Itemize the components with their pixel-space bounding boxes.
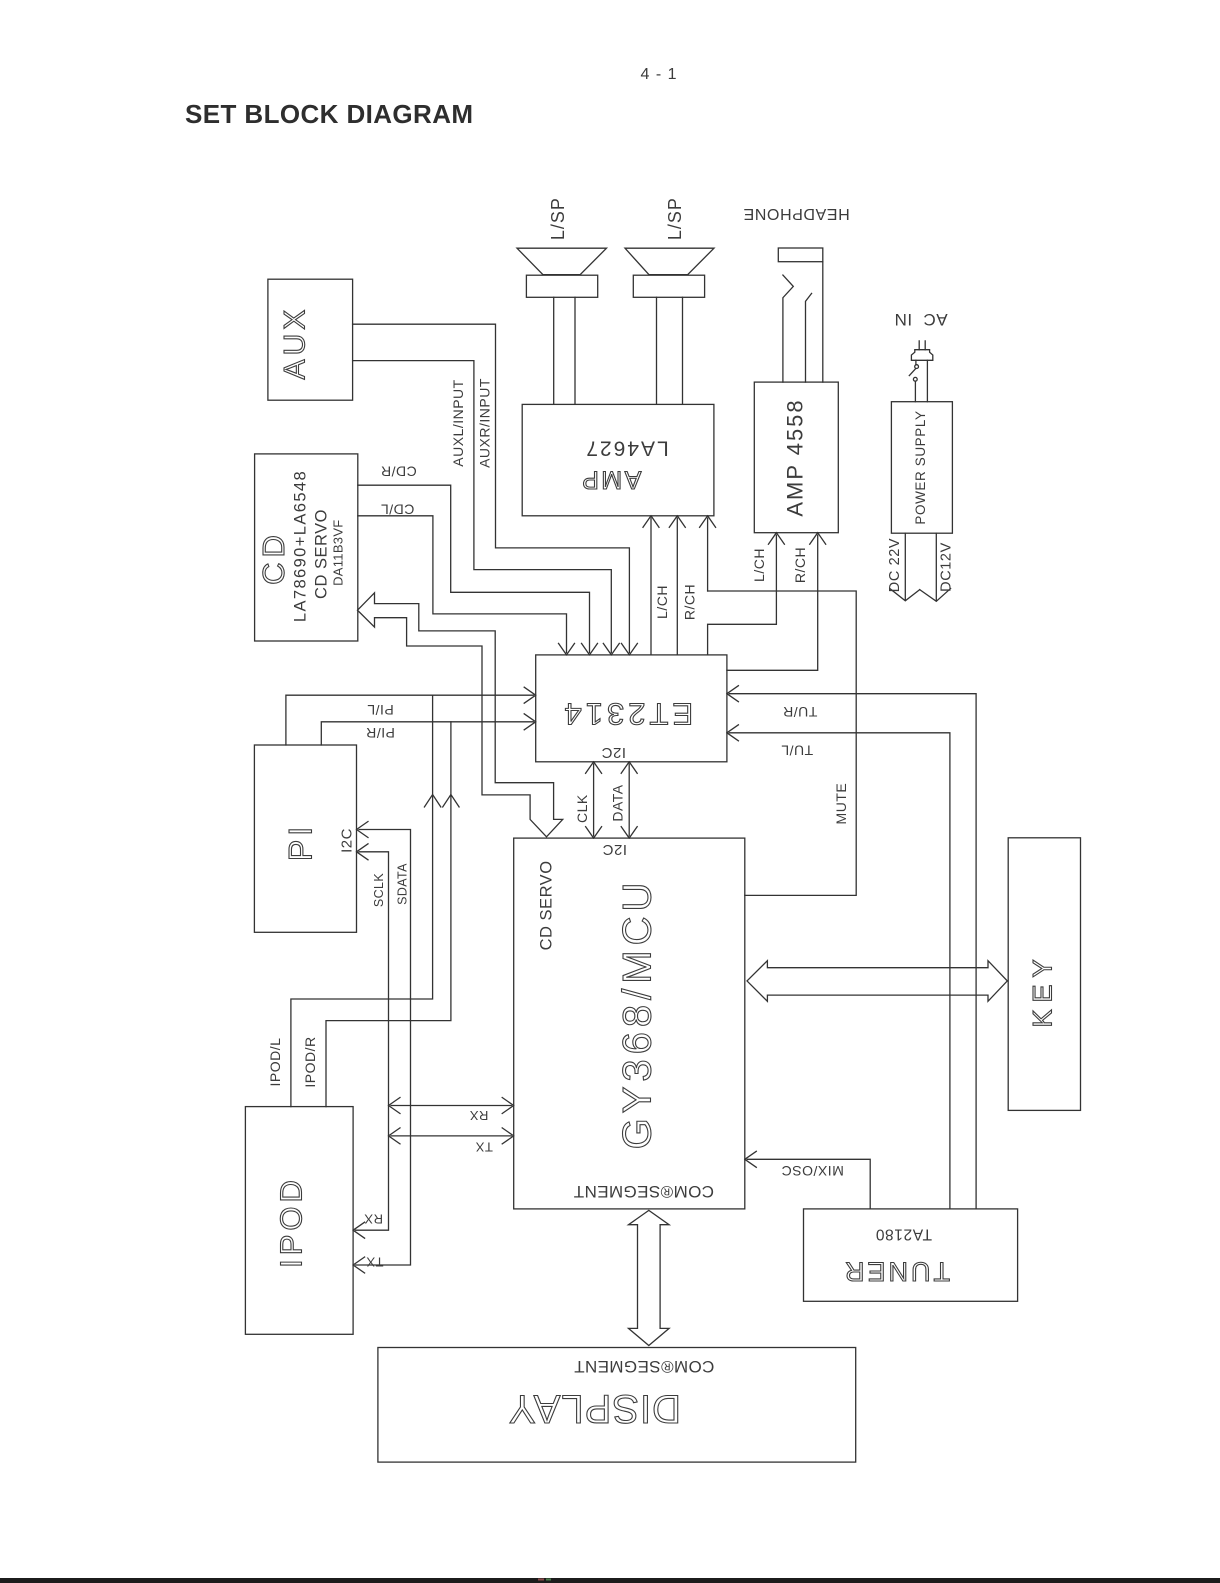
label MIX/OSC bbox=[781, 1163, 844, 1179]
svg-text:LA78690+LA6548: LA78690+LA6548 bbox=[291, 470, 309, 622]
svg-text:AMP 4558: AMP 4558 bbox=[782, 398, 807, 516]
svg-text:CD SERVO: CD SERVO bbox=[537, 860, 555, 950]
block AMP LA4627 bbox=[522, 404, 714, 515]
label L/CH (to LA4627) bbox=[654, 585, 670, 619]
svg-text:PI: PI bbox=[282, 823, 318, 861]
svg-text:SDATA: SDATA bbox=[395, 863, 409, 905]
svg-text:L/CH: L/CH bbox=[751, 548, 767, 582]
svg-text:SCLK: SCLK bbox=[372, 873, 386, 908]
svg-text:RX: RX bbox=[469, 1108, 488, 1123]
svg-text:R/CH: R/CH bbox=[792, 547, 808, 583]
label AUXL/INPUT bbox=[450, 379, 466, 466]
block ET2314 bbox=[536, 655, 727, 762]
label IPOD/L bbox=[267, 1038, 283, 1087]
wire CD/L to ET2314 bbox=[358, 516, 575, 655]
label L/SP (right speaker) bbox=[665, 197, 685, 240]
wire IPOD/L (joins PI/L line) bbox=[291, 695, 433, 1106]
label IPOD/R bbox=[302, 1036, 318, 1087]
break mark on IPOD/R bbox=[443, 795, 459, 808]
wire RX (to GY368, double arrow) bbox=[389, 1098, 514, 1114]
svg-text:TU/L: TU/L bbox=[781, 742, 813, 758]
svg-text:IPOD/L: IPOD/L bbox=[267, 1038, 283, 1087]
svg-text:RX: RX bbox=[364, 1212, 383, 1227]
block IPOD bbox=[245, 1107, 353, 1335]
block CD (LA78690+LA6548 CD SERVO DA11B3VF) bbox=[255, 454, 358, 641]
block PI bbox=[254, 745, 356, 932]
label SCLK bbox=[372, 873, 386, 908]
svg-text:I2C: I2C bbox=[601, 744, 626, 761]
break mark on IPOD/L bbox=[424, 795, 440, 808]
label TX (at GY368) bbox=[475, 1140, 493, 1155]
svg-text:IPOD/R: IPOD/R bbox=[302, 1036, 318, 1087]
label MUTE bbox=[833, 783, 849, 825]
svg-text:DA11B3VF: DA11B3VF bbox=[330, 519, 345, 585]
wire SCLK (PI I2C lower, shared with IPOD RX) bbox=[353, 844, 388, 1238]
DC 22V hollow arrow bbox=[890, 533, 920, 601]
wire DATA (ET2314 to GY368, double arrow) bbox=[621, 762, 637, 838]
block GY368/MCU bbox=[514, 838, 745, 1209]
block DISPLAY bbox=[378, 1348, 856, 1463]
page number bbox=[640, 66, 677, 83]
speaker L (left) bbox=[517, 248, 607, 404]
label R/CH (to LA4627) bbox=[682, 584, 698, 620]
svg-text:GY368/MCU: GY368/MCU bbox=[616, 878, 660, 1150]
wire R/CH (ET2314 to AMP 4558) bbox=[727, 533, 826, 671]
wire TU/R (TUNER to ET2314) bbox=[727, 686, 976, 1209]
hollow bent arrow CD SERVO (CD box to GY368) bbox=[358, 593, 563, 837]
svg-text:HEADPHONE: HEADPHONE bbox=[743, 205, 850, 222]
wire TU/L (TUNER to ET2314) bbox=[727, 725, 950, 1209]
wire IPOD/R (joins PI/R line) bbox=[326, 722, 451, 1107]
label L/CH (to AMP 4558) bbox=[751, 548, 767, 582]
svg-text:CD/R: CD/R bbox=[380, 463, 416, 479]
svg-text:IPOD: IPOD bbox=[274, 1176, 309, 1268]
wire AUXR/INPUT (AUX upper output to ET2314) bbox=[353, 324, 638, 655]
svg-text:PI/R: PI/R bbox=[366, 725, 395, 741]
block AUX bbox=[268, 279, 353, 400]
label TX (at IPOD) bbox=[366, 1254, 384, 1269]
svg-text:TX: TX bbox=[475, 1140, 493, 1155]
label DC12V bbox=[939, 542, 955, 592]
svg-text:COM®SEGMENT: COM®SEGMENT bbox=[573, 1182, 714, 1201]
svg-text:ET2314: ET2314 bbox=[561, 697, 694, 732]
svg-text:DC12V: DC12V bbox=[939, 542, 955, 592]
svg-text:DATA: DATA bbox=[609, 784, 625, 821]
wire TX (to GY368, double arrow) bbox=[389, 1128, 514, 1144]
svg-text:KEY: KEY bbox=[1028, 952, 1058, 1027]
svg-text:AUX: AUX bbox=[278, 306, 311, 380]
label CD/R bbox=[380, 463, 416, 479]
label L/SP (left speaker) bbox=[548, 197, 568, 240]
svg-text:TU/R: TU/R bbox=[783, 704, 818, 720]
DC12V hollow arrow bbox=[920, 533, 951, 601]
block POWER SUPPLY bbox=[891, 402, 952, 534]
wire PI/R (PI to ET2314) bbox=[321, 714, 535, 745]
svg-text:L/CH: L/CH bbox=[654, 585, 670, 619]
svg-text:AMP: AMP bbox=[580, 465, 642, 493]
label CLK bbox=[574, 794, 590, 823]
svg-text:SET BLOCK DIAGRAM: SET BLOCK DIAGRAM bbox=[185, 99, 473, 129]
svg-text:DISPLAY: DISPLAY bbox=[508, 1387, 681, 1431]
wire R/CH (ET2314 to AMP LA4627) bbox=[669, 516, 685, 655]
svg-text:AC IN: AC IN bbox=[894, 310, 948, 329]
wire CLK (ET2314 to GY368, double arrow) bbox=[586, 762, 602, 838]
block AMP 4558 bbox=[754, 382, 838, 533]
title SET BLOCK DIAGRAM bbox=[185, 99, 473, 129]
label HEADPHONE bbox=[743, 205, 850, 222]
svg-text:AUXR/INPUT: AUXR/INPUT bbox=[477, 378, 493, 468]
speaker R (right) bbox=[625, 248, 714, 404]
label TU/R bbox=[783, 704, 818, 720]
AC plug symbol with switch bbox=[909, 341, 933, 402]
svg-text:CD SERVO: CD SERVO bbox=[313, 509, 331, 599]
svg-text:I2C: I2C bbox=[338, 828, 355, 853]
svg-text:CD/L: CD/L bbox=[380, 501, 414, 517]
wire PI/L (PI to ET2314) bbox=[286, 687, 536, 745]
svg-text:MIX/OSC: MIX/OSC bbox=[781, 1163, 844, 1179]
block KEY bbox=[1008, 838, 1080, 1111]
svg-text:4 - 1: 4 - 1 bbox=[640, 66, 677, 83]
label DC 22V bbox=[887, 538, 903, 592]
label SDATA bbox=[395, 863, 409, 905]
svg-text:POWER SUPPLY: POWER SUPPLY bbox=[913, 410, 928, 524]
svg-text:TA2180: TA2180 bbox=[875, 1226, 932, 1243]
label DATA bbox=[609, 784, 625, 821]
wire MUTE (GY368 to LA4627 mute pin) bbox=[700, 516, 857, 896]
block TUNER TA2180 bbox=[804, 1209, 1018, 1301]
label PI/R bbox=[366, 725, 395, 741]
svg-text:CD: CD bbox=[256, 530, 291, 585]
svg-text:R/CH: R/CH bbox=[682, 584, 698, 620]
svg-text:PI/L: PI/L bbox=[367, 702, 394, 718]
svg-text:TX: TX bbox=[366, 1254, 384, 1269]
label CD/L bbox=[380, 501, 414, 517]
svg-text:DC 22V: DC 22V bbox=[887, 538, 903, 592]
svg-text:MUTE: MUTE bbox=[833, 783, 849, 825]
headphone jack symbol bbox=[778, 248, 823, 382]
svg-text:CLK: CLK bbox=[574, 794, 590, 823]
label RX (at IPOD) bbox=[364, 1212, 383, 1227]
svg-text:I2C: I2C bbox=[602, 841, 627, 858]
hollow double arrow GY368-KEY bbox=[747, 961, 1007, 1002]
wire SDATA (PI I2C upper, shared with IPOD TX) bbox=[353, 822, 410, 1274]
label AC IN bbox=[894, 310, 948, 329]
label RX (at GY368) bbox=[469, 1108, 488, 1123]
label TU/L bbox=[781, 742, 813, 758]
svg-text:COM®SEGMENT: COM®SEGMENT bbox=[574, 1357, 715, 1376]
label AUXR/INPUT bbox=[477, 378, 493, 468]
hollow double arrow GY368-DISPLAY (COM/SEGMENT bus) bbox=[629, 1210, 670, 1345]
wire L/CH (ET2314 to AMP LA4627) bbox=[643, 516, 659, 655]
label R/CH (to AMP 4558) bbox=[792, 547, 808, 583]
svg-text:L/SP: L/SP bbox=[665, 197, 685, 240]
wire L/CH (ET2314 to AMP 4558) bbox=[708, 533, 785, 655]
bottom page rule bbox=[0, 1578, 1220, 1583]
svg-text:LA4627: LA4627 bbox=[584, 436, 668, 459]
wire CD/R to ET2314 bbox=[358, 485, 598, 655]
wire AUXL/INPUT (AUX lower output to ET2314) bbox=[353, 361, 620, 655]
svg-text:L/SP: L/SP bbox=[548, 197, 568, 240]
svg-text:AUXL/INPUT: AUXL/INPUT bbox=[450, 379, 466, 466]
svg-text:TUNER: TUNER bbox=[842, 1257, 950, 1287]
label PI/L bbox=[367, 702, 394, 718]
wire MIX/OSC (TUNER to GY368) bbox=[745, 1151, 870, 1209]
